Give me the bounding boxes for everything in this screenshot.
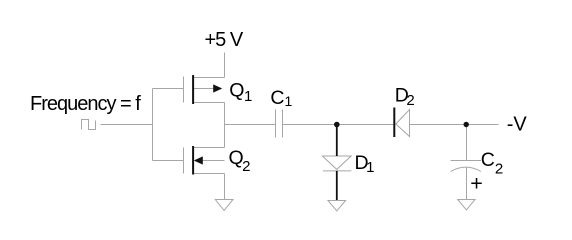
svg-text:C1: C1 bbox=[270, 87, 292, 109]
svg-text:+5 V: +5 V bbox=[205, 29, 244, 51]
svg-text:-V: -V bbox=[507, 114, 528, 136]
svg-text:C2: C2 bbox=[481, 149, 503, 178]
svg-text:+: + bbox=[470, 172, 483, 196]
svg-text:D2: D2 bbox=[395, 85, 415, 110]
svg-text:Q1: Q1 bbox=[229, 79, 252, 105]
svg-text:Q2: Q2 bbox=[229, 147, 251, 175]
svg-text:Frequency = f: Frequency = f bbox=[30, 93, 141, 115]
svg-text:D1: D1 bbox=[355, 152, 375, 176]
